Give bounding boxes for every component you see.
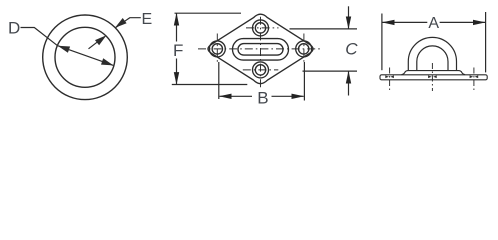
A dimension line right segment with right arrow <box>440 21 486 23</box>
horizontal centerline <box>198 48 321 50</box>
slot inner obround <box>238 44 283 56</box>
F top extension line <box>175 12 242 14</box>
dimension line D (inner diameter) <box>58 46 114 66</box>
countersink marks left hole <box>385 75 394 78</box>
raised boss <box>402 71 466 75</box>
C bottom arrow pointing up <box>348 71 350 95</box>
F dimension line upper segment with up arrow <box>176 13 178 41</box>
left hole vertical crosshair <box>216 34 218 63</box>
ring inner circle <box>55 27 115 87</box>
B left extension line <box>218 62 220 99</box>
bottom hole horizontal crosshair <box>243 69 278 71</box>
vertical centerline <box>260 17 262 90</box>
F bottom extension line <box>172 84 248 86</box>
left hole centerline <box>389 68 391 91</box>
center hole centerline <box>431 63 433 91</box>
leader for D <box>21 28 58 46</box>
C bottom extension line <box>303 70 358 72</box>
right hole vertical crosshair <box>303 34 305 63</box>
svg-text:C: C <box>345 39 358 58</box>
right hole <box>296 41 312 57</box>
diamond plate outline <box>208 14 313 83</box>
arrowhead D lower-right <box>101 58 113 65</box>
leader for E with arrow to outer circle <box>116 18 141 28</box>
A left extension line <box>381 14 383 71</box>
bottom hole <box>253 62 269 78</box>
A right extension line <box>485 12 487 72</box>
top hole <box>253 20 269 36</box>
eye loop inner <box>417 46 448 71</box>
C top extension line <box>290 28 358 30</box>
base plate bar <box>380 75 487 80</box>
svg-text:D: D <box>8 19 20 38</box>
right hole centerline <box>473 68 475 91</box>
ring outer circle <box>43 15 128 100</box>
arrowhead D upper-left <box>58 46 70 53</box>
B right extension line <box>303 62 305 101</box>
F dimension line lower segment with down arrow <box>176 59 178 85</box>
B dimension line right segment with right arrow <box>272 95 304 97</box>
svg-text:F: F <box>173 41 183 60</box>
slot outer obround <box>233 39 289 61</box>
eye loop outer <box>408 37 456 70</box>
inner E arrow pointing at inner circle <box>89 40 100 49</box>
left hole <box>209 41 225 57</box>
svg-text:E: E <box>142 11 153 28</box>
countersink marks center hole <box>428 75 437 78</box>
C top arrow pointing down <box>348 6 350 28</box>
svg-text:B: B <box>257 88 268 107</box>
top hole horizontal crosshair <box>246 27 279 29</box>
A dimension line left segment with left arrow <box>382 21 427 23</box>
arrowhead E at outer circle <box>115 18 127 28</box>
B dimension line left segment with left arrow <box>220 95 253 97</box>
countersink marks right hole <box>470 75 479 78</box>
svg-text:A: A <box>428 15 439 32</box>
